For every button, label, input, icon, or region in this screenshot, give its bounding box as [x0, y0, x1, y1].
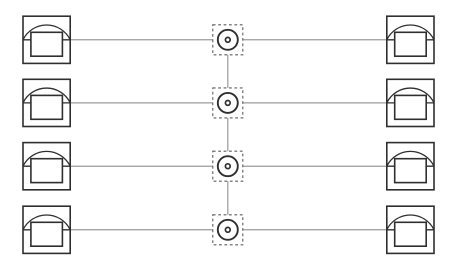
wire left device 2 to hub tap 2	[70, 102, 213, 104]
left workstation 2	[23, 79, 70, 126]
wire vertical backbone tap 3 to tap 4	[227, 181, 229, 215]
wire left device 1 to hub tap 1	[70, 39, 213, 41]
right workstation 1	[387, 16, 434, 63]
wire vertical backbone tap 2 to tap 3	[227, 118, 229, 151]
bus tap node 4	[213, 215, 243, 245]
wire hub tap 2 to right device 2	[243, 102, 387, 104]
wire hub tap 3 to right device 3	[243, 165, 387, 167]
bus tap node 3	[213, 151, 243, 181]
wire vertical backbone tap 1 to tap 2	[227, 55, 229, 88]
right workstation 3	[387, 143, 434, 190]
wire left device 4 to hub tap 4	[70, 229, 213, 231]
bus tap node 1	[213, 25, 243, 55]
right workstation 4	[387, 206, 434, 253]
wire hub tap 1 to right device 1	[243, 39, 387, 41]
wire hub tap 4 to right device 4	[243, 229, 387, 231]
left workstation 3	[23, 143, 70, 190]
wire left device 3 to hub tap 3	[70, 165, 213, 167]
left workstation 1	[23, 16, 70, 63]
right workstation 2	[387, 79, 434, 126]
left workstation 4	[23, 206, 70, 253]
bus tap node 2	[213, 88, 243, 118]
